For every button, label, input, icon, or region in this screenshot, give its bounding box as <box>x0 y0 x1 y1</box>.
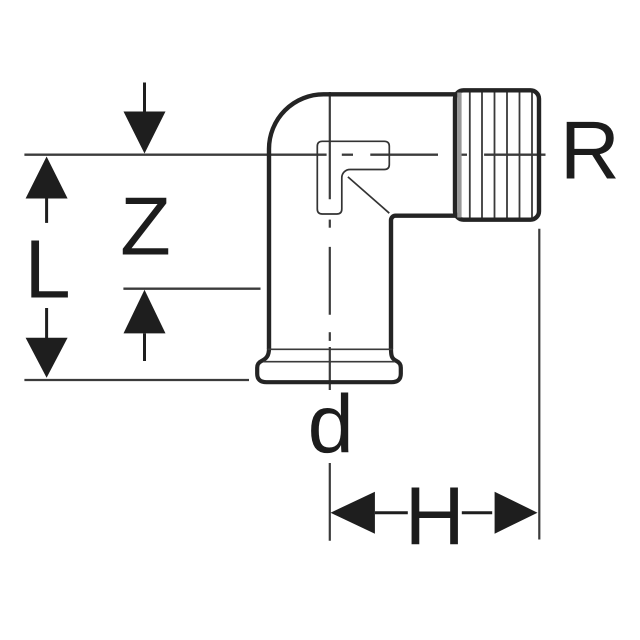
wire H right extension line <box>538 229 540 540</box>
wire L bottom dimension line <box>24 379 249 381</box>
svg-text:d: d <box>308 377 354 470</box>
Z dimension top arrow (down, above line) <box>143 83 146 113</box>
svg-text:R: R <box>560 104 620 197</box>
bead top thin line <box>264 361 395 363</box>
wire H left extension line (centerline continuation) <box>329 463 331 541</box>
wire horizontal dimension/center line through thread axis <box>24 154 545 156</box>
L dimension top arrow (up) <box>26 157 68 199</box>
svg-text:H: H <box>405 469 465 562</box>
L dimension bottom arrow (down) <box>45 308 48 339</box>
H dimension right arrow (pointing right) <box>462 511 492 514</box>
svg-text:L: L <box>25 222 71 315</box>
H dimension left arrow (pointing left) <box>331 492 375 534</box>
svg-text:Z: Z <box>120 179 171 272</box>
wire vertical centerline of socket <box>329 92 331 390</box>
Z dimension bottom arrow (up, below line) <box>124 290 166 334</box>
socket bead outer shape <box>257 349 401 383</box>
thread crest lines <box>459 93 532 218</box>
thread block outline <box>455 90 539 219</box>
diagonal section line <box>348 177 389 213</box>
internal bore flag outline <box>317 141 389 214</box>
bead shoulder thin line <box>268 348 393 350</box>
wire Z bottom dimension line <box>123 288 260 290</box>
elbow body outer profile <box>269 94 456 348</box>
